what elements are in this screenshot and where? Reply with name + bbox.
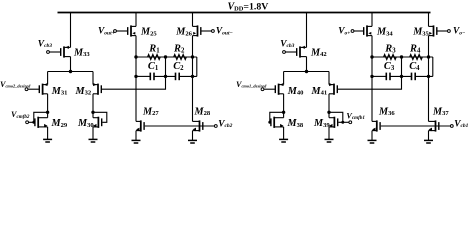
label C3 [384, 61, 395, 72]
terminal Vcb1 [450, 125, 453, 128]
svg-text:VDD=1.8V: VDD=1.8V [228, 1, 269, 12]
wire [306, 57, 308, 72]
transistor M31 [28, 83, 47, 95]
label M30 [77, 118, 94, 129]
label M33 [73, 47, 90, 58]
wire [284, 71, 329, 73]
label M31 [51, 86, 68, 97]
wire (diode loop) [270, 112, 284, 122]
wire (R/C mid link) [165, 57, 167, 76]
resistor R1 [148, 55, 161, 60]
wire (R/C end loop) [196, 57, 198, 76]
wire [371, 36, 373, 122]
node (M32 drain) [91, 111, 94, 114]
wire [415, 75, 433, 77]
resistor R3 [384, 55, 397, 60]
wire [428, 36, 430, 122]
node [134, 75, 137, 78]
label M25 [140, 27, 157, 38]
node [191, 55, 194, 58]
node [400, 75, 403, 78]
node [134, 55, 137, 58]
label M29 [51, 118, 68, 129]
label C2 [173, 61, 184, 72]
transistor M35 [429, 25, 448, 36]
terminal Vo- [448, 30, 451, 33]
transistor M29 [28, 117, 47, 128]
wire [136, 56, 197, 58]
label M26 [175, 27, 192, 38]
label Vo+ [338, 27, 350, 37]
label Vcb3 [280, 39, 294, 49]
label R4 [409, 44, 421, 55]
wire (diode loop) [329, 112, 343, 122]
terminal Vcb3 [47, 51, 50, 54]
wire [154, 75, 176, 77]
label Vcmfb1 [346, 112, 365, 122]
wire (gate bias line) [145, 125, 214, 127]
wire [371, 13, 373, 27]
ground (M37) [424, 131, 433, 143]
label M32 [75, 86, 92, 97]
wire (CM sense to gate) [338, 76, 402, 89]
node [370, 75, 373, 78]
wire [92, 94, 94, 118]
label Vcmfb2 [11, 110, 30, 120]
label R2 [173, 44, 185, 55]
ground (M30) [89, 127, 98, 142]
transistor M41 [329, 83, 337, 95]
node (loop-gate junction) [341, 121, 344, 124]
transistor M40 [264, 83, 284, 95]
label VDD=1.8V [228, 1, 269, 12]
transistor M37 [429, 120, 439, 131]
transistor M30 [93, 117, 102, 128]
label M42 [310, 47, 327, 58]
wire [270, 121, 271, 123]
transistor M26 [193, 25, 212, 36]
transistor M38 [271, 117, 284, 128]
terminal Vcmfb2 [26, 121, 29, 124]
wire [135, 36, 137, 122]
capacitor C2 [176, 73, 180, 81]
label Vcb2 [218, 119, 232, 129]
label R1 [148, 44, 160, 55]
wire (diode loop) [93, 112, 107, 122]
wire (gate bias line) [381, 125, 450, 127]
label Vcmo2_desired [0, 80, 31, 89]
wire (CM sense to gate) [102, 76, 166, 89]
wire [343, 121, 349, 123]
wire [306, 13, 308, 48]
label M35 [412, 27, 429, 38]
transistor M42 [286, 46, 307, 58]
wire [328, 94, 330, 118]
wire [135, 13, 137, 27]
node [400, 55, 403, 58]
transistor M32 [93, 83, 101, 95]
wire [192, 13, 194, 27]
ground (M28) [188, 131, 197, 143]
transistor M33 [50, 46, 71, 58]
ground (M36) [368, 131, 377, 143]
wire [70, 13, 72, 48]
wire [47, 94, 49, 118]
wire [192, 36, 194, 122]
ground (M27) [132, 131, 141, 143]
wire [283, 72, 285, 85]
transistor M27 [136, 120, 144, 131]
wire [92, 72, 94, 85]
terminal Vout- [212, 30, 215, 33]
node (M40 drain) [282, 111, 285, 114]
wire [179, 75, 197, 77]
node [370, 55, 373, 58]
ground (M29) [43, 127, 52, 142]
label C4 [409, 61, 420, 72]
label Vcmo1_desired [236, 80, 267, 89]
terminal Vcmo1_desired [261, 88, 264, 91]
terminal Vcmo2_desired [25, 88, 28, 91]
node [427, 55, 430, 58]
label M38 [287, 118, 304, 129]
terminal Vcb2 [214, 125, 217, 128]
wire (R/C end loop) [432, 57, 434, 76]
label Vout+ [98, 27, 115, 37]
transistor M25 [117, 25, 137, 36]
wire [328, 72, 330, 85]
wire [372, 75, 386, 77]
label M37 [432, 106, 449, 117]
transistor M39 [329, 117, 338, 128]
label R3 [384, 44, 396, 55]
capacitor C4 [412, 73, 416, 81]
node [164, 75, 167, 78]
node (loop-gate junction) [268, 121, 271, 124]
wire [428, 13, 430, 27]
terminal Vo+ [351, 30, 354, 33]
wire [390, 75, 412, 77]
label M39 [313, 118, 330, 129]
node [191, 75, 194, 78]
label Vcb1 [454, 119, 468, 129]
label Vo- [453, 27, 465, 37]
label Vout- [216, 27, 233, 37]
resistor R2 [174, 55, 187, 60]
terminal Vcb3 [283, 51, 286, 54]
node (tail junction) [305, 70, 308, 73]
label M28 [194, 106, 211, 117]
label M41 [311, 86, 328, 97]
node [427, 75, 430, 78]
node (loop-gate junction) [32, 121, 35, 124]
node (M31 drain) [46, 111, 49, 114]
wire (diode loop) [34, 112, 48, 122]
label M27 [142, 106, 159, 117]
transistor M28 [193, 120, 203, 131]
label M40 [287, 86, 304, 97]
ground (M39) [325, 127, 334, 142]
wire [136, 75, 150, 77]
label M34 [376, 27, 393, 38]
wire [283, 94, 285, 118]
transistor M36 [372, 120, 380, 131]
wire [48, 71, 93, 73]
resistor R4 [410, 55, 423, 60]
terminal Vcmfb1 [349, 121, 352, 124]
label C1 [148, 61, 159, 72]
node (tail junction) [69, 70, 72, 73]
node [164, 55, 167, 58]
wire (R/C mid link) [401, 57, 403, 76]
terminal Vout+ [114, 30, 117, 33]
node (M41 drain) [327, 111, 330, 114]
wire [70, 57, 72, 72]
label Vcb3 [38, 39, 52, 49]
capacitor C1 [150, 73, 154, 81]
transistor M34 [354, 25, 372, 36]
wire [372, 56, 433, 58]
label M36 [378, 106, 395, 117]
wire (VDD rail) [58, 12, 431, 14]
ground (M38) [279, 127, 288, 142]
wire [47, 72, 49, 85]
capacitor C3 [386, 73, 390, 81]
